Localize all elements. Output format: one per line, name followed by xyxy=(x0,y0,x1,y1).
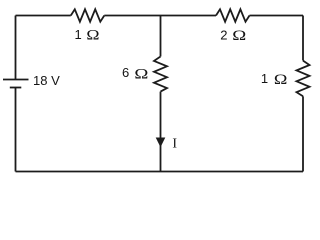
wire middle lower xyxy=(160,92,162,172)
svg-text:Ω: Ω xyxy=(274,72,288,88)
svg-text:I: I xyxy=(172,137,177,152)
svg-text:1: 1 xyxy=(75,27,82,42)
wire right lower xyxy=(302,96,304,171)
resistor R1 1ohm (top-left zigzag) xyxy=(71,9,105,21)
resistor R2 2ohm (top-right zigzag) xyxy=(216,9,250,21)
battery V1 18V long plate xyxy=(3,79,29,81)
svg-text:Ω: Ω xyxy=(232,28,246,44)
wire left upper xyxy=(15,16,17,80)
wire top-right segment xyxy=(250,15,304,17)
wire bottom xyxy=(16,171,304,173)
svg-text:2: 2 xyxy=(220,28,227,43)
resistor R4 1ohm (right vertical zigzag) xyxy=(297,61,310,97)
svg-text:Ω: Ω xyxy=(134,66,148,82)
wire right upper xyxy=(302,16,304,61)
svg-text:Ω: Ω xyxy=(86,27,99,43)
wire middle upper xyxy=(160,16,162,57)
battery V1 18V short plate xyxy=(10,87,21,89)
svg-text:1: 1 xyxy=(261,71,268,86)
svg-text:18 V: 18 V xyxy=(33,73,60,88)
current arrow I (down) xyxy=(156,138,166,148)
wire left lower xyxy=(15,88,17,172)
wire top-left segment xyxy=(16,15,71,17)
wire top-middle segment xyxy=(104,15,216,17)
resistor R3 6ohm (middle vertical zigzag) xyxy=(154,57,167,92)
svg-text:6: 6 xyxy=(122,65,129,80)
